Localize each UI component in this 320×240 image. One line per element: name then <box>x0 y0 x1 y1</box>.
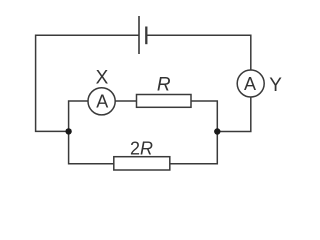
wire ammeter Y bottom to right junction <box>217 97 251 132</box>
wire left junction up and right to ammeter X <box>69 101 88 131</box>
wire ammeter X to resistor R <box>115 100 136 102</box>
ammeter X circle <box>88 88 115 115</box>
wire top-left horizontal to battery <box>36 35 139 131</box>
wire left junction down to 2R branch <box>69 131 114 163</box>
svg-text:R: R <box>157 74 171 95</box>
resistor 2R box <box>114 157 170 170</box>
wire top-right from battery to ammeter Y <box>146 35 251 70</box>
battery cell short plate (negative) <box>145 27 147 45</box>
wire resistor R to right junction <box>191 101 217 132</box>
wire 2R to right junction <box>170 132 218 164</box>
resistor R box <box>137 95 192 108</box>
ammeter Y circle <box>237 70 264 97</box>
svg-text:Y: Y <box>269 75 282 96</box>
battery cell long plate (positive) <box>138 16 140 54</box>
svg-text:2R: 2R <box>130 138 153 158</box>
svg-text:A: A <box>96 91 108 111</box>
junction node left <box>65 128 71 134</box>
svg-text:A: A <box>244 74 256 94</box>
svg-text:X: X <box>96 67 109 88</box>
junction node right <box>214 128 220 134</box>
